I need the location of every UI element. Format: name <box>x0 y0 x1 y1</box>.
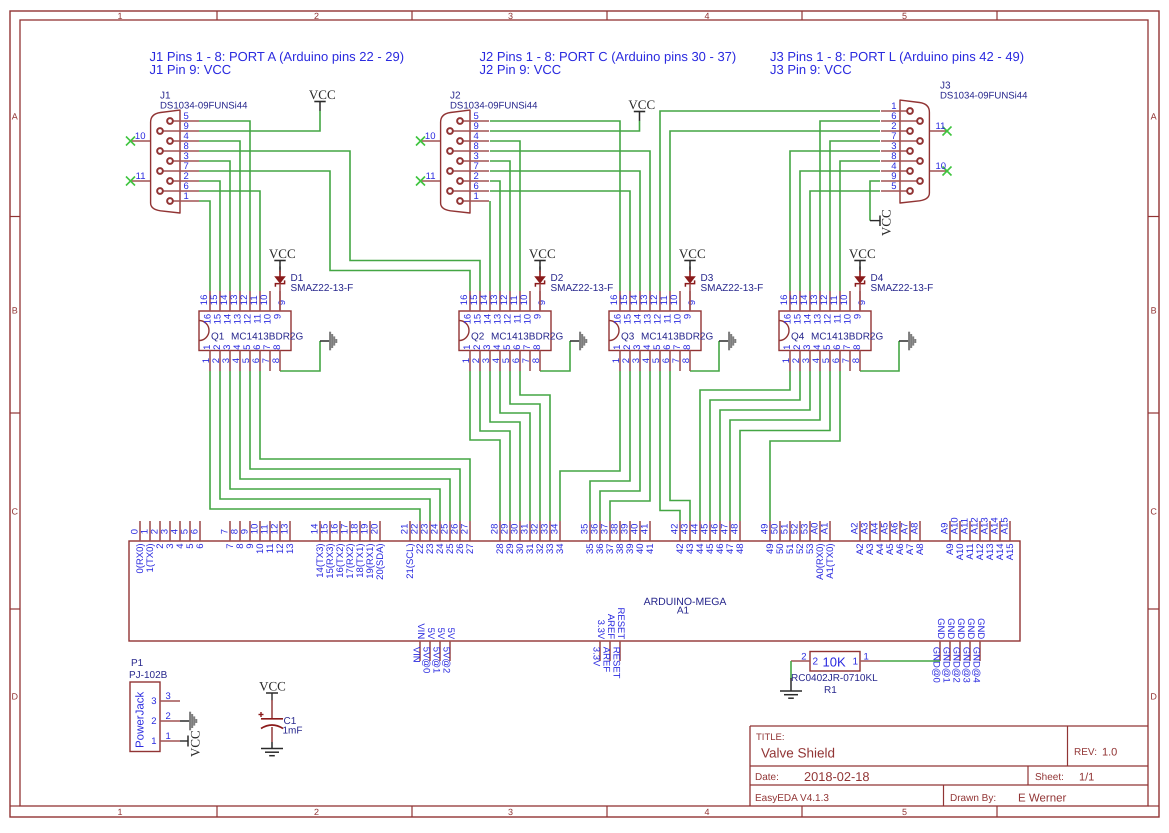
svg-text:5V@1: 5V@1 <box>430 647 441 674</box>
svg-text:9: 9 <box>682 314 693 319</box>
svg-text:20: 20 <box>370 524 381 535</box>
svg-text:3.3V: 3.3V <box>595 620 606 640</box>
svg-text:6: 6 <box>195 543 206 548</box>
svg-text:20(SDA): 20(SDA) <box>375 543 386 579</box>
svg-text:6: 6 <box>190 529 201 534</box>
svg-text:MC1413BDR2G: MC1413BDR2G <box>231 332 303 343</box>
svg-text:Q4: Q4 <box>791 332 805 343</box>
svg-text:8: 8 <box>851 358 862 363</box>
svg-text:1: 1 <box>151 736 156 747</box>
svg-text:VCC: VCC <box>188 730 203 757</box>
svg-text:C: C <box>1150 507 1157 517</box>
svg-text:GND: GND <box>975 618 986 639</box>
svg-text:MC1413BDR2G: MC1413BDR2G <box>811 332 883 343</box>
svg-text:A: A <box>1151 112 1157 122</box>
svg-text:VCC: VCC <box>628 97 655 112</box>
svg-text:Sheet:: Sheet: <box>1035 772 1064 783</box>
svg-text:VIN: VIN <box>410 647 421 663</box>
svg-text:D: D <box>1150 692 1157 702</box>
svg-text:SMAZ22-13-F: SMAZ22-13-F <box>551 283 614 294</box>
svg-text:GND: GND <box>935 618 946 639</box>
svg-text:VCC: VCC <box>878 209 893 236</box>
svg-text:B: B <box>1151 306 1157 316</box>
svg-text:SMAZ22-13-F: SMAZ22-13-F <box>871 283 934 294</box>
svg-text:PJ-102B: PJ-102B <box>129 670 168 681</box>
svg-text:D: D <box>12 692 19 702</box>
svg-text:AREF: AREF <box>600 647 611 673</box>
svg-text:5: 5 <box>902 11 907 21</box>
svg-text:C: C <box>12 507 19 517</box>
svg-text:8: 8 <box>682 345 693 350</box>
svg-text:10: 10 <box>839 295 850 306</box>
svg-text:PowerJack: PowerJack <box>135 692 147 748</box>
svg-text:TITLE:: TITLE: <box>756 732 785 743</box>
svg-text:RC0402JR-0710KL: RC0402JR-0710KL <box>791 673 878 684</box>
svg-text:13: 13 <box>285 543 296 554</box>
svg-text:1: 1 <box>184 191 189 202</box>
svg-text:8: 8 <box>852 345 863 350</box>
svg-text:3: 3 <box>151 696 156 707</box>
svg-text:R1: R1 <box>824 685 837 696</box>
svg-text:GND: GND <box>955 618 966 639</box>
svg-text:11: 11 <box>136 171 146 182</box>
svg-text:8: 8 <box>272 345 283 350</box>
svg-text:10K: 10K <box>823 655 846 670</box>
svg-text:27: 27 <box>460 524 471 535</box>
svg-text:MC1413BDR2G: MC1413BDR2G <box>641 332 713 343</box>
svg-text:9: 9 <box>537 300 548 305</box>
svg-text:VCC: VCC <box>849 246 876 261</box>
svg-text:GND@1: GND@1 <box>940 647 951 683</box>
svg-text:1mF: 1mF <box>283 726 303 737</box>
svg-text:Drawn By:: Drawn By: <box>950 793 996 804</box>
svg-text:4: 4 <box>704 807 709 817</box>
svg-text:Q1: Q1 <box>211 332 225 343</box>
svg-text:A15: A15 <box>1005 543 1016 560</box>
svg-text:3: 3 <box>166 691 171 702</box>
svg-text:8: 8 <box>532 345 543 350</box>
svg-text:10: 10 <box>669 295 680 306</box>
svg-text:2018-02-18: 2018-02-18 <box>804 769 869 784</box>
svg-text:AREF: AREF <box>605 614 616 640</box>
svg-text:GND@0: GND@0 <box>930 647 941 683</box>
svg-text:RESET: RESET <box>610 647 621 679</box>
svg-text:A8: A8 <box>910 523 921 535</box>
svg-text:E Werner: E Werner <box>1018 793 1067 805</box>
svg-text:41: 41 <box>645 543 656 554</box>
svg-text:1: 1 <box>853 657 859 668</box>
svg-text:B: B <box>12 306 18 316</box>
svg-text:11: 11 <box>936 121 946 132</box>
svg-text:9: 9 <box>852 314 863 319</box>
svg-text:8: 8 <box>681 358 692 363</box>
svg-text:VCC: VCC <box>259 678 286 693</box>
svg-text:Date:: Date: <box>755 772 779 783</box>
svg-text:A1: A1 <box>820 523 831 535</box>
svg-text:J2 Pin 9: VCC: J2 Pin 9: VCC <box>480 62 562 77</box>
svg-text:4: 4 <box>704 11 709 21</box>
svg-text:P1: P1 <box>131 658 144 669</box>
svg-text:A1(TX0): A1(TX0) <box>825 543 836 578</box>
svg-text:3.3V: 3.3V <box>590 647 601 667</box>
svg-text:DS1034-09FUNSi44: DS1034-09FUNSi44 <box>940 91 1028 102</box>
svg-text:J3 Pin 9: VCC: J3 Pin 9: VCC <box>770 62 852 77</box>
svg-text:9: 9 <box>532 314 543 319</box>
svg-text:1: 1 <box>166 731 171 742</box>
svg-text:5V: 5V <box>435 628 446 640</box>
svg-text:1.0: 1.0 <box>1102 747 1117 759</box>
svg-text:DS1034-09FUNSi44: DS1034-09FUNSi44 <box>160 101 248 112</box>
svg-text:5V: 5V <box>425 628 436 640</box>
svg-text:2: 2 <box>166 711 171 722</box>
svg-text:VCC: VCC <box>309 87 336 102</box>
svg-text:RESET: RESET <box>615 608 626 640</box>
svg-text:27: 27 <box>465 543 476 554</box>
svg-text:8: 8 <box>271 358 282 363</box>
svg-text:2: 2 <box>314 807 319 817</box>
svg-text:GND@2: GND@2 <box>950 647 961 683</box>
svg-text:SMAZ22-13-F: SMAZ22-13-F <box>701 283 764 294</box>
svg-text:MC1413BDR2G: MC1413BDR2G <box>491 332 563 343</box>
svg-text:41: 41 <box>640 524 651 535</box>
svg-text:1: 1 <box>117 11 122 21</box>
svg-text:A15: A15 <box>1000 517 1011 534</box>
svg-text:8: 8 <box>531 358 542 363</box>
svg-text:10: 10 <box>519 295 530 306</box>
svg-text:Q2: Q2 <box>471 332 485 343</box>
svg-text:VCC: VCC <box>679 246 706 261</box>
svg-text:5V@0: 5V@0 <box>420 647 431 674</box>
svg-text:REV:: REV: <box>1074 747 1097 758</box>
svg-text:A: A <box>12 112 18 122</box>
svg-text:5V@2: 5V@2 <box>440 647 451 674</box>
svg-text:EasyEDA V4.1.3: EasyEDA V4.1.3 <box>755 793 829 804</box>
svg-text:13: 13 <box>280 524 291 535</box>
svg-text:10: 10 <box>425 131 436 142</box>
svg-text:2: 2 <box>813 657 819 668</box>
svg-text:3: 3 <box>508 11 513 21</box>
svg-text:5: 5 <box>902 807 907 817</box>
svg-text:GND@4: GND@4 <box>970 647 981 683</box>
svg-text:1/1: 1/1 <box>1079 772 1094 784</box>
svg-text:GND: GND <box>945 618 956 639</box>
svg-text:SMAZ22-13-F: SMAZ22-13-F <box>291 283 354 294</box>
svg-text:10: 10 <box>936 161 947 172</box>
svg-text:VCC: VCC <box>529 246 556 261</box>
svg-text:10: 10 <box>259 295 270 306</box>
svg-text:9: 9 <box>857 300 868 305</box>
svg-text:9: 9 <box>277 300 288 305</box>
svg-text:11: 11 <box>426 171 436 182</box>
svg-text:Valve Shield: Valve Shield <box>761 746 835 761</box>
svg-text:3: 3 <box>508 807 513 817</box>
svg-text:48: 48 <box>730 524 741 535</box>
svg-text:1: 1 <box>117 807 122 817</box>
svg-text:A1: A1 <box>677 606 690 617</box>
svg-text:9: 9 <box>272 314 283 319</box>
svg-text:34: 34 <box>555 543 566 554</box>
svg-text:GND: GND <box>965 618 976 639</box>
svg-text:VCC: VCC <box>269 246 296 261</box>
svg-text:VIN: VIN <box>415 623 426 639</box>
svg-text:5: 5 <box>891 181 896 192</box>
svg-text:9: 9 <box>687 300 698 305</box>
svg-text:5V: 5V <box>445 628 456 640</box>
svg-text:GND@3: GND@3 <box>960 647 971 683</box>
svg-text:34: 34 <box>550 524 561 535</box>
svg-text:10: 10 <box>135 131 146 142</box>
svg-text:DS1034-09FUNSi44: DS1034-09FUNSi44 <box>450 101 538 112</box>
svg-text:Q3: Q3 <box>621 332 635 343</box>
svg-text:48: 48 <box>735 543 746 554</box>
svg-text:A8: A8 <box>915 543 926 555</box>
svg-text:2: 2 <box>314 11 319 21</box>
svg-text:1: 1 <box>474 191 479 202</box>
svg-text:J1 Pin 9: VCC: J1 Pin 9: VCC <box>150 62 232 77</box>
svg-text:2: 2 <box>151 716 156 727</box>
